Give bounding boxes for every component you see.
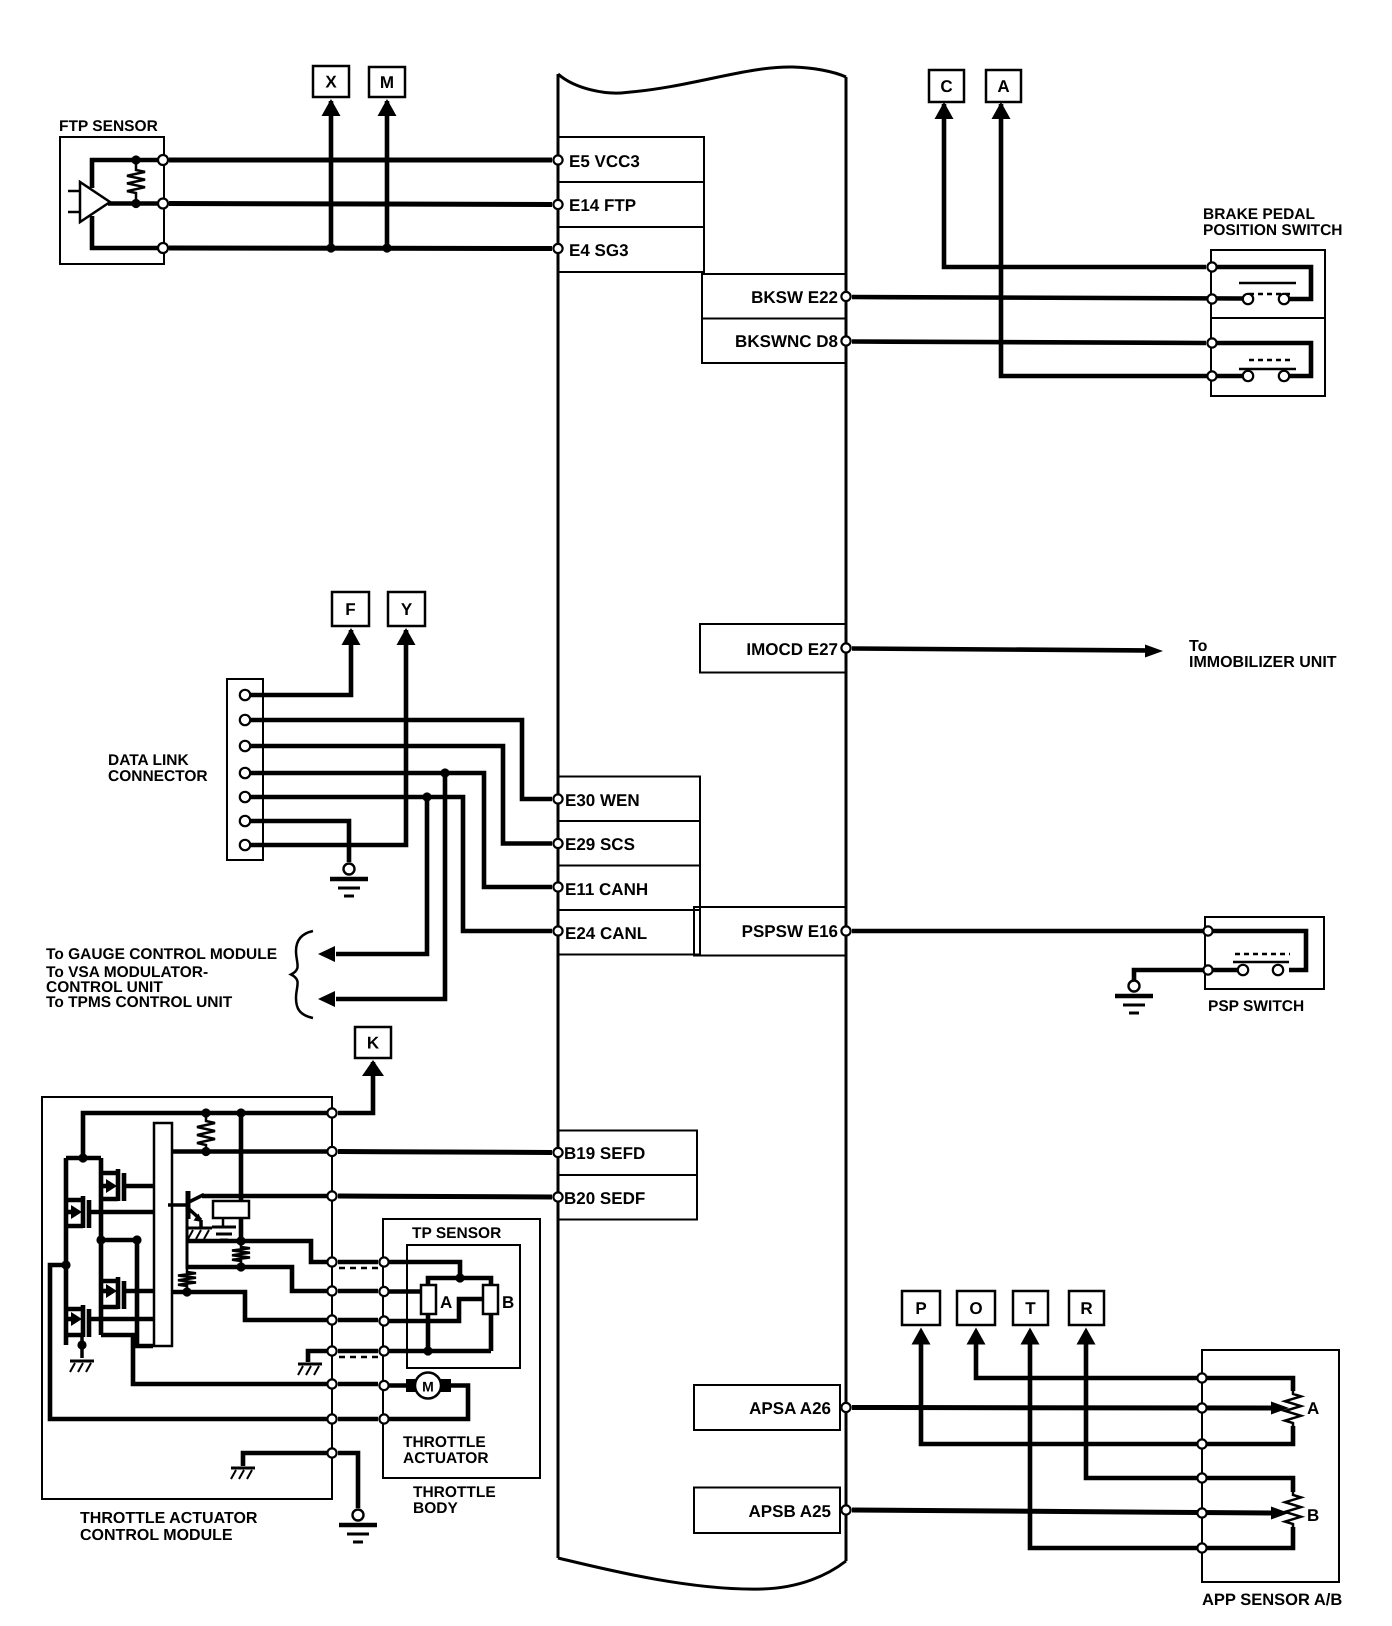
wire B19 internal xyxy=(172,1149,332,1154)
pot B element xyxy=(483,1285,498,1314)
svg-text:To GAUGE CONTROL MODULE: To GAUGE CONTROL MODULE xyxy=(46,946,277,963)
arrowhead APSB wiper xyxy=(1271,1507,1289,1520)
pot A element xyxy=(421,1285,436,1314)
wire link row3 xyxy=(338,1318,378,1323)
APP sensor box xyxy=(1202,1350,1339,1582)
terminal BKSW E22 xyxy=(841,292,850,301)
ECM left edge xyxy=(557,74,560,1558)
ground throttle xyxy=(339,1510,377,1543)
wire FTP internal top xyxy=(92,160,160,188)
PSP switch bar xyxy=(1233,961,1289,964)
immobilizer label xyxy=(1189,638,1337,671)
brake switch top bar xyxy=(1239,282,1296,285)
wire row1 internal xyxy=(187,1241,332,1262)
ground relay xyxy=(212,1227,236,1240)
body terminal row1 xyxy=(379,1257,388,1266)
svg-text:R: R xyxy=(1080,1299,1092,1318)
arrowhead APSA wiper xyxy=(1271,1402,1289,1415)
svg-text:M: M xyxy=(380,73,394,92)
wire TP gnd B xyxy=(489,1314,494,1351)
arrowhead TPMS xyxy=(318,991,335,1007)
resistor FTP pull-up xyxy=(127,160,145,203)
module label xyxy=(80,1510,258,1544)
svg-text:A: A xyxy=(1307,1399,1319,1418)
mosfet Q4 xyxy=(66,1305,153,1337)
svg-text:FTP SENSOR: FTP SENSOR xyxy=(59,118,158,135)
arrowhead K xyxy=(362,1060,384,1076)
arrowhead gauge module xyxy=(318,946,335,962)
wire pot B top xyxy=(1202,1478,1293,1492)
PSP contact L xyxy=(1238,965,1248,975)
PSP switch box xyxy=(1205,917,1324,989)
wire TP gnd row xyxy=(384,1349,491,1354)
svg-text:E4 SG3: E4 SG3 xyxy=(569,241,629,260)
junction R2 top xyxy=(236,1236,245,1245)
terminal APSB xyxy=(841,1505,850,1514)
terminal B20 xyxy=(553,1192,562,1201)
arrowhead R xyxy=(1077,1328,1096,1345)
terminal BKSWNC D8 xyxy=(841,336,850,345)
wire relay drop xyxy=(239,1113,244,1201)
wire BKSWNC D8 to switch xyxy=(852,342,1206,344)
module terminal row4 xyxy=(327,1346,336,1355)
wire P xyxy=(921,1336,1202,1444)
module box xyxy=(42,1097,332,1499)
svg-text:THROTTLE: THROTTLE xyxy=(403,1434,486,1451)
module terminal row7 xyxy=(327,1448,336,1457)
arrowhead immobilizer xyxy=(1145,645,1163,658)
DLC wire pin7 to Y xyxy=(250,630,406,845)
terminal E29 xyxy=(553,839,562,848)
pot B APP label xyxy=(1307,1506,1319,1525)
connector R box xyxy=(1069,1291,1104,1325)
APP terminal APSA xyxy=(1197,1403,1206,1412)
dashed link row4 xyxy=(339,1356,379,1359)
connector A box xyxy=(986,70,1021,102)
wire TP wiper A xyxy=(384,1289,421,1294)
transistor driver bar xyxy=(154,1123,172,1346)
terminal E5 xyxy=(553,155,562,164)
connector X box xyxy=(313,66,349,97)
body terminal row6 xyxy=(379,1414,388,1423)
TP sensor label xyxy=(412,1225,501,1242)
pin box E4 SG3 xyxy=(558,227,704,272)
wire link row5 xyxy=(338,1382,378,1387)
wire link row2 xyxy=(338,1289,378,1294)
relay box xyxy=(213,1201,249,1218)
module terminal row3 xyxy=(327,1315,336,1324)
junction CANL branch xyxy=(422,792,431,801)
svg-text:E5 VCC3: E5 VCC3 xyxy=(569,152,640,171)
DLC wire pin1 to F xyxy=(250,630,351,695)
terminal FTP pin3 xyxy=(158,243,168,253)
ground transistor emitter xyxy=(188,1228,212,1239)
PSP switch loop xyxy=(1208,931,1306,970)
wire row4 ground stub xyxy=(308,1351,332,1362)
junction Q4 source xyxy=(77,1340,86,1349)
connector P box xyxy=(902,1291,940,1325)
brake switch bottom contact L xyxy=(1243,371,1253,381)
wire to X xyxy=(329,101,334,248)
mosfet Q2 xyxy=(66,1196,153,1228)
svg-text:E29 SCS: E29 SCS xyxy=(565,835,635,854)
wire TP wiper B xyxy=(384,1299,483,1321)
ECM right edge xyxy=(845,77,848,1561)
DLC wire pin3 to E29 xyxy=(250,746,552,844)
svg-text:APSB A25: APSB A25 xyxy=(748,1502,831,1521)
svg-text:P: P xyxy=(915,1299,926,1318)
brake switch top contact R xyxy=(1279,294,1289,304)
svg-text:To TPMS CONTROL UNIT: To TPMS CONTROL UNIT xyxy=(46,994,233,1011)
pot A APP label xyxy=(1307,1399,1319,1418)
arrowhead Y xyxy=(397,628,416,645)
wire base extend xyxy=(186,1217,189,1269)
DLC wire pin2 to E30 xyxy=(250,720,552,799)
svg-text:B: B xyxy=(1307,1506,1319,1525)
pin box BKSWNC D8 xyxy=(702,319,846,364)
pin box BKSW E22 xyxy=(702,274,846,319)
wire module top xyxy=(83,1113,332,1158)
wire rail to row6 xyxy=(50,1265,332,1419)
wire motor plus xyxy=(384,1383,408,1388)
brake switch bottom bar xyxy=(1239,368,1296,371)
DLC pin 2 xyxy=(240,715,250,725)
wire APSA xyxy=(852,1405,1274,1411)
wire pot A top xyxy=(1202,1378,1293,1391)
terminal PSP top xyxy=(1203,926,1212,935)
arrowhead P xyxy=(912,1328,931,1345)
wire row3 internal xyxy=(172,1292,332,1320)
pin box PSPSW E16 xyxy=(694,907,846,956)
ECM top wavy edge xyxy=(558,67,846,93)
svg-text:B: B xyxy=(502,1293,514,1312)
arrowhead M xyxy=(378,99,397,116)
data link connector label xyxy=(108,752,208,785)
brake switch top dashed xyxy=(1249,293,1293,296)
throttle body label xyxy=(413,1484,496,1517)
wire T xyxy=(1030,1336,1202,1548)
module terminal B19 xyxy=(327,1147,336,1156)
junction X on E4 wire xyxy=(326,243,335,252)
DLC pin 5 xyxy=(240,792,250,802)
wire link row1 xyxy=(338,1260,378,1265)
op-amp U1 xyxy=(68,182,110,222)
svg-text:APP SENSOR A/B: APP SENSOR A/B xyxy=(1202,1591,1342,1609)
arrowhead A xyxy=(992,102,1011,119)
body terminal row2 xyxy=(379,1287,388,1296)
APP terminal APSB xyxy=(1197,1508,1206,1517)
dashed link row1 xyxy=(339,1267,379,1270)
brake switch bottom loop xyxy=(1212,343,1311,376)
APP sensor label xyxy=(1202,1591,1342,1609)
DLC box xyxy=(227,679,263,860)
wire to M xyxy=(385,101,390,248)
svg-text:T: T xyxy=(1025,1299,1036,1318)
DLC wire pin4 to E11 xyxy=(250,773,552,887)
terminal FTP pin2 xyxy=(158,199,168,209)
svg-text:BKSW E22: BKSW E22 xyxy=(751,288,838,307)
wire pot B bottom xyxy=(1202,1527,1293,1548)
wire B20 SEDF xyxy=(338,1196,552,1197)
brake switch bottom dashed xyxy=(1249,359,1293,362)
wire CANH branch to modules xyxy=(336,773,445,999)
svg-text:THROTTLE ACTUATOR: THROTTLE ACTUATOR xyxy=(80,1510,258,1527)
terminal FTP pin1 xyxy=(158,155,168,165)
arrowhead O xyxy=(967,1328,986,1345)
wire FTP internal bottom xyxy=(92,216,160,248)
wire link row4 xyxy=(338,1349,378,1354)
terminal IMOCD E27 xyxy=(841,643,850,652)
terminal PSP bottom xyxy=(1203,965,1212,974)
resistor R2 xyxy=(232,1244,250,1264)
svg-text:E14 FTP: E14 FTP xyxy=(569,196,636,215)
DLC wire pin5 to E24 xyxy=(250,797,552,931)
junction M on E4 wire xyxy=(382,243,391,252)
svg-text:CONTROL MODULE: CONTROL MODULE xyxy=(80,1527,233,1544)
body terminal row5 xyxy=(379,1381,388,1390)
wire B19 SEFD xyxy=(338,1152,552,1153)
junction FTP top xyxy=(131,155,140,164)
wire mid branch xyxy=(101,1240,153,1346)
connector Y box xyxy=(388,592,425,626)
DLC pin 6 xyxy=(240,816,250,826)
pin box E14 FTP xyxy=(558,182,704,227)
pot A APP xyxy=(1285,1391,1301,1426)
arrowhead C xyxy=(935,102,954,119)
TP sensor box xyxy=(407,1245,520,1368)
wire relay to R2 xyxy=(239,1218,244,1244)
svg-text:M: M xyxy=(422,1379,434,1395)
wire left rail xyxy=(64,1158,69,1345)
svg-text:E24 CANL: E24 CANL xyxy=(565,924,647,943)
svg-text:B20 SEDF: B20 SEDF xyxy=(564,1189,645,1208)
svg-text:IMMOBILIZER UNIT: IMMOBILIZER UNIT xyxy=(1189,654,1337,671)
junction left rail top xyxy=(78,1153,87,1162)
brake pedal switch label xyxy=(1203,206,1343,239)
wire motor minus xyxy=(384,1386,468,1420)
module terminal row5 xyxy=(327,1379,336,1388)
svg-text:A: A xyxy=(440,1293,452,1312)
terminal brake top-1 xyxy=(1207,262,1216,271)
junction R3 bottom xyxy=(182,1287,191,1296)
DLC pin 4 xyxy=(240,768,250,778)
connector C box xyxy=(929,70,964,102)
DLC pin 1 xyxy=(240,690,250,700)
wire Q4 source down xyxy=(80,1337,84,1358)
wire E14 FTP xyxy=(169,204,552,205)
junction TP vcc xyxy=(455,1273,464,1282)
wire to K xyxy=(338,1062,373,1113)
ECM bottom wavy edge xyxy=(558,1558,846,1589)
module terminal B20 xyxy=(327,1191,336,1200)
svg-text:K: K xyxy=(367,1034,380,1053)
svg-text:ACTUATOR: ACTUATOR xyxy=(403,1450,489,1467)
APP terminal P-row xyxy=(1197,1439,1206,1448)
connector O box xyxy=(957,1291,995,1325)
terminal brake bottom-1 xyxy=(1207,338,1216,347)
ground DLC xyxy=(330,864,368,897)
pin box E11 CANH xyxy=(558,866,700,911)
DLC pin 7 xyxy=(240,840,250,850)
throttle body box xyxy=(383,1219,540,1478)
pin box E30 WEN xyxy=(558,777,700,822)
module terminal K xyxy=(327,1108,336,1117)
wire FTP internal mid xyxy=(108,201,160,206)
wire R xyxy=(1086,1336,1202,1478)
pin box B20 SEDF xyxy=(558,1175,697,1220)
PSP contact R xyxy=(1273,965,1283,975)
pot B label xyxy=(502,1293,514,1312)
PSP switch dashed xyxy=(1235,953,1290,956)
wire A to switch xyxy=(1001,104,1243,376)
wire TP vcc xyxy=(384,1262,460,1278)
resistor R3 xyxy=(178,1269,196,1289)
junction mid branch xyxy=(132,1235,141,1244)
PSP switch label xyxy=(1208,998,1304,1015)
arrowhead F xyxy=(342,628,361,645)
wire pot A bottom xyxy=(1202,1426,1293,1444)
module terminal row1 xyxy=(327,1257,336,1266)
ground module lower-left xyxy=(70,1361,94,1372)
pin box IMOCD E27 xyxy=(700,624,846,673)
junction R1 top xyxy=(201,1108,210,1117)
pin box E24 CANL xyxy=(558,910,700,955)
ground row4 xyxy=(298,1364,322,1375)
arrowhead T xyxy=(1021,1328,1040,1345)
junction R1 bottom xyxy=(201,1147,210,1156)
wire C to switch xyxy=(944,104,1206,267)
wire row2 internal xyxy=(187,1267,332,1291)
resistor R1 xyxy=(197,1113,215,1152)
DLC wire pin6 to ground xyxy=(250,821,349,862)
ground row7 xyxy=(231,1468,255,1479)
svg-text:F: F xyxy=(345,600,355,619)
terminal E4 xyxy=(553,244,562,253)
svg-text:PSP SWITCH: PSP SWITCH xyxy=(1208,998,1304,1015)
FTP sensor label xyxy=(59,118,158,135)
APP terminal R-row xyxy=(1197,1473,1206,1482)
wire APSB xyxy=(852,1510,1274,1513)
svg-text:To: To xyxy=(1189,638,1208,655)
wire PSPSW to switch xyxy=(852,929,1205,934)
wire E5 VCC3 xyxy=(169,158,552,163)
svg-text:PSPSW E16: PSPSW E16 xyxy=(742,922,838,941)
wire link row6 xyxy=(338,1417,378,1422)
svg-text:BRAKE PEDAL: BRAKE PEDAL xyxy=(1203,206,1315,223)
brace to-modules xyxy=(291,931,313,1018)
terminal APSA xyxy=(841,1403,850,1412)
APP terminal T-row xyxy=(1197,1543,1206,1552)
svg-text:C: C xyxy=(940,77,952,96)
terminal E14 xyxy=(553,200,562,209)
svg-text:CONNECTOR: CONNECTOR xyxy=(108,768,208,785)
terminal brake bottom-2 xyxy=(1207,371,1216,380)
wire upper link xyxy=(66,1156,101,1161)
wire rail to row5 xyxy=(101,1335,332,1384)
throttle actuator label xyxy=(403,1434,489,1467)
svg-text:APSA A26: APSA A26 xyxy=(749,1399,831,1418)
body terminal row4 xyxy=(379,1346,388,1355)
svg-text:A: A xyxy=(997,77,1009,96)
pot A label xyxy=(440,1293,452,1312)
pin box B19 SEFD xyxy=(558,1131,697,1176)
wire E4 SG3 xyxy=(169,246,552,252)
wire B20 internal xyxy=(202,1194,332,1199)
wire CANL branch to modules xyxy=(336,797,427,954)
wire TP gnd A xyxy=(426,1314,431,1351)
svg-text:TP SENSOR: TP SENSOR xyxy=(412,1225,501,1242)
wire mid rail xyxy=(99,1158,104,1335)
motor M1 xyxy=(406,1373,451,1399)
wire IMOCD to immobilizer xyxy=(852,649,1148,651)
module terminal row6 xyxy=(327,1414,336,1423)
svg-text:BKSWNC D8: BKSWNC D8 xyxy=(735,332,838,351)
connector K box xyxy=(355,1027,391,1058)
wire O xyxy=(976,1336,1202,1378)
junction R2 bottom xyxy=(236,1262,245,1271)
connector F box xyxy=(332,592,369,626)
to modules label xyxy=(46,946,277,1011)
pin box E5 VCC3 xyxy=(558,137,704,182)
terminal E24 xyxy=(553,926,562,935)
relay ground stub xyxy=(222,1218,225,1226)
svg-text:BODY: BODY xyxy=(413,1500,458,1517)
PSP wire to ground xyxy=(1134,970,1237,980)
wire TP vcc to B xyxy=(460,1278,491,1285)
brake pedal switch box xyxy=(1211,250,1325,396)
ground PSP xyxy=(1115,981,1153,1014)
svg-text:E11 CANH: E11 CANH xyxy=(565,880,648,899)
connector T box xyxy=(1013,1291,1048,1325)
wire TP vcc to A xyxy=(428,1278,460,1285)
wire row7 ground stub xyxy=(243,1453,332,1466)
terminal B19 xyxy=(553,1148,562,1157)
brake switch top contact L xyxy=(1243,294,1253,304)
pin box APSA A26 xyxy=(694,1385,840,1430)
junction TP gnd xyxy=(423,1346,432,1355)
brake switch bottom contact R xyxy=(1279,371,1289,381)
module terminal row2 xyxy=(327,1286,336,1295)
svg-text:X: X xyxy=(325,73,337,92)
connector M box xyxy=(369,67,405,97)
pin box E29 SCS xyxy=(558,821,700,866)
terminal brake top-2 xyxy=(1207,294,1216,303)
DLC pin 3 xyxy=(240,741,250,751)
svg-text:O: O xyxy=(969,1299,982,1318)
svg-text:B19 SEFD: B19 SEFD xyxy=(564,1144,645,1163)
svg-text:POSITION SWITCH: POSITION SWITCH xyxy=(1203,222,1343,239)
svg-text:IMOCD E27: IMOCD E27 xyxy=(746,640,838,659)
brake switch top loop xyxy=(1212,267,1311,299)
pin box APSB A25 xyxy=(694,1488,840,1534)
junction left rail low xyxy=(61,1260,70,1269)
pot B APP xyxy=(1285,1492,1301,1527)
svg-text:DATA LINK: DATA LINK xyxy=(108,752,189,769)
body terminal row3 xyxy=(379,1316,388,1325)
terminal PSPSW E16 xyxy=(841,926,850,935)
terminal E30 xyxy=(553,794,562,803)
wire row7 to ground xyxy=(338,1453,358,1508)
transistor Q5 xyxy=(168,1191,204,1227)
mosfet Q1 xyxy=(101,1169,153,1201)
svg-text:Y: Y xyxy=(401,600,413,619)
wire BKSW E22 to switch xyxy=(852,297,1243,299)
junction mid rail xyxy=(96,1235,105,1244)
arrowhead X xyxy=(322,99,341,116)
junction FTP mid xyxy=(131,199,140,208)
svg-text:E30 WEN: E30 WEN xyxy=(565,791,640,810)
junction CANH branch xyxy=(440,768,449,777)
